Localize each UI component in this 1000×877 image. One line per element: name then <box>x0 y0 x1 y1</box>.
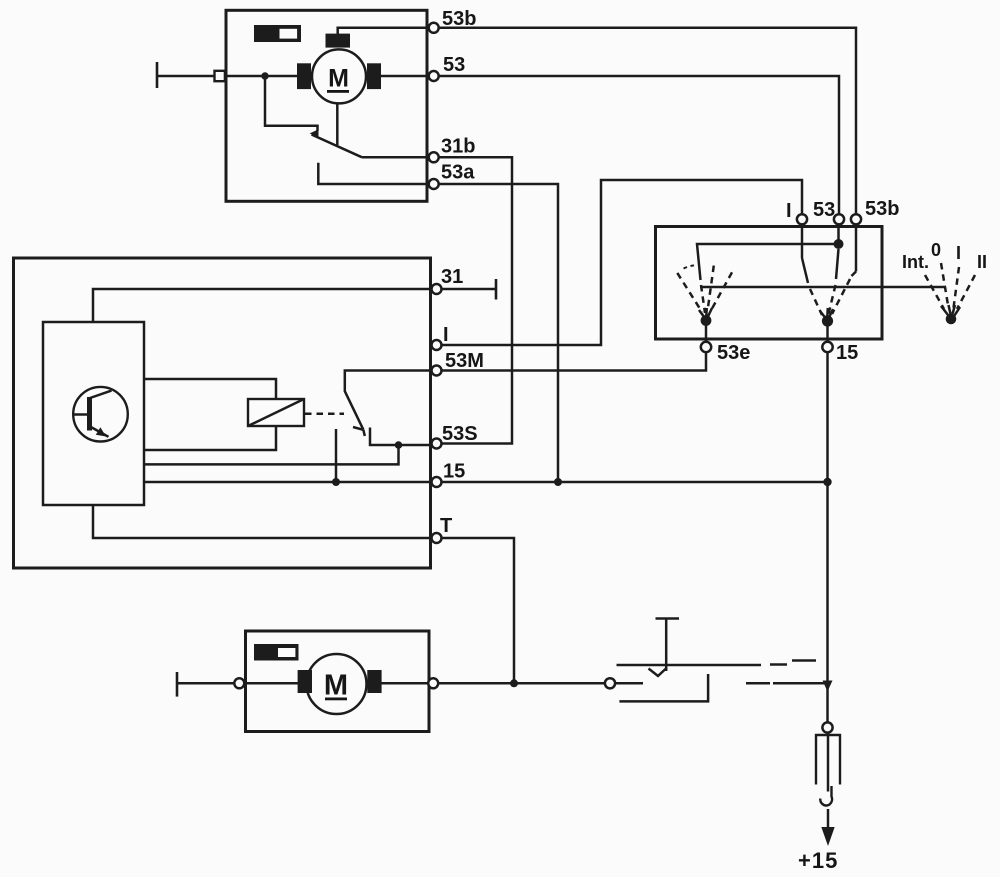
fixed contact stub to 15 <box>335 429 338 482</box>
terminal I (switch) <box>797 214 807 224</box>
wire through motor M1 (armature supply) <box>225 75 430 78</box>
svg-text:T: T <box>440 515 452 537</box>
rotary position line <box>700 286 944 289</box>
wire 53a to 15 line <box>438 184 558 482</box>
junction dot 53a/15 <box>554 478 562 486</box>
wire 53S junction to module <box>144 445 399 464</box>
rotary switch positions <box>902 240 987 316</box>
washer pump box <box>246 631 430 732</box>
relay contact arm / 53M line <box>345 371 432 430</box>
motor M1 <box>297 34 381 104</box>
terminal 53 (switch) <box>834 214 844 224</box>
svg-text:M: M <box>324 670 348 702</box>
rotary knob dot <box>946 314 957 325</box>
terminal 53 (M1) <box>429 71 439 81</box>
wiper motor unit M1 box <box>226 10 427 201</box>
svg-text:15: 15 <box>836 342 858 364</box>
wire wiper to terminal 15 <box>826 325 829 342</box>
terminal 15 (relay box) <box>432 477 442 487</box>
mechanical coupling (dashed) <box>305 412 344 415</box>
wire I relay to column switch <box>441 180 802 345</box>
terminal 53a (M1) <box>429 179 439 189</box>
wire ground bar to M1 <box>157 75 216 78</box>
svg-text:I: I <box>956 243 961 263</box>
junction dot on 53 <box>834 239 844 249</box>
terminal M2 right <box>428 678 438 688</box>
wire 15 <box>144 481 828 484</box>
wiper contact dot 15 <box>822 315 833 326</box>
svg-text:II: II <box>977 252 987 272</box>
svg-text:31: 31 <box>441 266 463 288</box>
svg-text:53e: 53e <box>717 342 750 364</box>
terminal 53S <box>432 439 442 449</box>
wire through pump motor <box>244 682 429 685</box>
flow arrow on feed <box>823 681 833 692</box>
svg-text:53: 53 <box>443 54 465 76</box>
column switch box <box>656 227 883 340</box>
washer switch <box>615 619 826 702</box>
motor M1 fixed contact (run) <box>336 104 339 145</box>
junction dot inside M1 box <box>261 72 268 79</box>
arrow to +15 <box>827 809 830 829</box>
svg-text:53b: 53b <box>865 198 899 220</box>
wire T to washer pump <box>441 538 514 683</box>
junction dot T/pump wire <box>510 679 518 687</box>
wire module to terminal T <box>93 505 432 538</box>
svg-text:I: I <box>786 200 792 222</box>
right contact fan (15) <box>802 224 856 318</box>
feed wire 15 down <box>826 352 829 722</box>
left contact fan (53e) <box>677 265 732 317</box>
svg-text:15: 15 <box>443 461 465 483</box>
terminal 31b (M1) <box>429 152 439 162</box>
park-position switch symbol (M1) <box>254 25 301 42</box>
park contact 53a stub <box>318 163 429 184</box>
terminal 53M <box>432 366 442 376</box>
terminal circle M1 left <box>215 71 225 81</box>
wire junction to park-contact arm <box>265 76 318 131</box>
transistor Q1 <box>73 387 128 442</box>
svg-text:Int.: Int. <box>902 252 929 272</box>
contact 53S step <box>370 428 432 446</box>
wire wiper to terminal 53e <box>705 324 708 343</box>
park switch arm (M1) <box>310 129 319 136</box>
motor M2 <box>298 654 382 714</box>
svg-text:53: 53 <box>813 199 835 221</box>
terminal 31 <box>432 284 442 294</box>
svg-text:53M: 53M <box>445 350 484 372</box>
relay coil K1 <box>248 399 304 426</box>
fuse connector <box>816 722 840 805</box>
control module inner box <box>43 322 144 505</box>
svg-text:53a: 53a <box>441 162 475 184</box>
intermittent wiper relay box <box>14 258 431 568</box>
wire module to terminal 31 <box>93 289 432 322</box>
junction dot 53S <box>395 441 403 449</box>
wire 53e to 53M <box>441 352 706 370</box>
terminal I (relay box) <box>432 340 442 350</box>
terminal T <box>432 533 442 543</box>
wire 53 to column switch <box>438 76 839 214</box>
park symbol (pump) <box>254 644 299 661</box>
wire 31 to connector bar <box>441 288 496 291</box>
svg-text:I: I <box>443 324 449 346</box>
wire 31b to 53S <box>438 157 512 443</box>
washer switch contact circle <box>605 678 615 688</box>
wire pump to washer switch <box>438 682 605 685</box>
terminal 15 (switch) <box>822 342 832 352</box>
terminal bar (31) <box>495 279 498 300</box>
wire 53b to column switch <box>438 28 856 215</box>
svg-text:31b: 31b <box>441 136 475 158</box>
terminal 53b (M1) <box>429 23 439 33</box>
svg-text:53S: 53S <box>442 423 478 445</box>
terminal M2 left <box>234 678 244 688</box>
bridge wire 53 to 53e contact <box>697 224 839 280</box>
svg-text:M: M <box>328 65 349 93</box>
junction dot 15/feed <box>823 478 831 486</box>
terminal 53b (switch) <box>851 214 861 224</box>
junction dot on 15 wire <box>332 478 340 486</box>
svg-text:0: 0 <box>931 240 941 260</box>
wire bar to pump <box>177 682 235 685</box>
terminal bar left of pump <box>176 672 179 697</box>
terminal 53e <box>701 342 711 352</box>
svg-text:+15: +15 <box>798 848 838 873</box>
wiper contact dot 53e <box>701 315 712 326</box>
terminal bar (connector) left of M1 <box>156 62 159 88</box>
relay coil K1 loop wires <box>144 379 276 399</box>
wire 53b from brush to terminal <box>338 28 429 35</box>
